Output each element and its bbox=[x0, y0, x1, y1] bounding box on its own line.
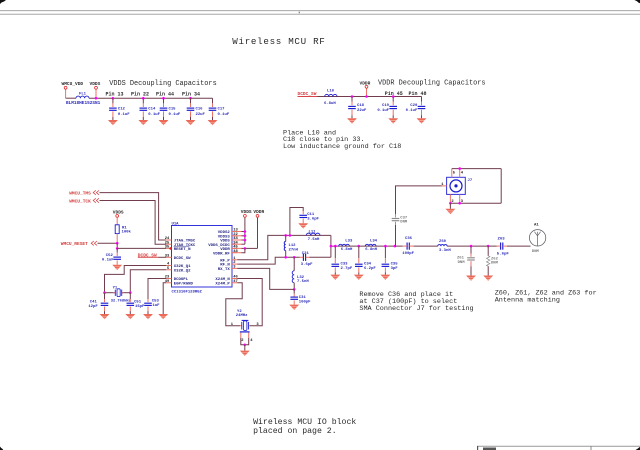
svg-text:SMA Connector J7 for testing: SMA Connector J7 for testing bbox=[359, 305, 473, 313]
svg-text:Low inductance ground for C18: Low inductance ground for C18 bbox=[283, 143, 401, 151]
svg-text:C53: C53 bbox=[152, 299, 160, 303]
svg-text:C12: C12 bbox=[118, 107, 126, 111]
svg-text:6.2pF: 6.2pF bbox=[364, 267, 376, 271]
svg-text:X24M_P: X24M_P bbox=[215, 282, 230, 286]
svg-text:C21: C21 bbox=[302, 252, 310, 256]
svg-text:0.1uF: 0.1uF bbox=[377, 109, 389, 113]
svg-text:C14: C14 bbox=[148, 107, 156, 111]
svg-text:CC1310F128RGZ: CC1310F128RGZ bbox=[172, 291, 203, 295]
svg-text:0.1uF: 0.1uF bbox=[406, 109, 418, 113]
svg-text:DNM: DNM bbox=[491, 262, 499, 266]
svg-text:C11: C11 bbox=[307, 213, 315, 217]
svg-text:C16: C16 bbox=[196, 107, 204, 111]
svg-text:Pin 13: Pin 13 bbox=[106, 91, 124, 97]
svg-text:A1: A1 bbox=[534, 223, 539, 227]
svg-text:Antenna matching: Antenna matching bbox=[495, 297, 560, 305]
svg-text:U1A: U1A bbox=[172, 222, 180, 226]
svg-text:0.1uF: 0.1uF bbox=[218, 113, 230, 117]
svg-text:VDDS: VDDS bbox=[241, 209, 252, 215]
svg-text:VDDR Decoupling Capacitors: VDDR Decoupling Capacitors bbox=[378, 79, 486, 87]
svg-text:Wireless MCU RF: Wireless MCU RF bbox=[232, 36, 325, 47]
svg-text:J7: J7 bbox=[468, 179, 473, 183]
svg-text:BLM18HE152SN1: BLM18HE152SN1 bbox=[66, 101, 101, 106]
svg-text:RX_TX: RX_TX bbox=[218, 268, 231, 272]
svg-text:15pF: 15pF bbox=[135, 305, 145, 309]
svg-text:24MHz: 24MHz bbox=[236, 314, 248, 318]
svg-text:35: 35 bbox=[165, 246, 170, 250]
svg-text:3.3nH: 3.3nH bbox=[439, 249, 451, 253]
svg-text:L11: L11 bbox=[309, 230, 317, 234]
svg-text:C51: C51 bbox=[134, 301, 142, 305]
svg-text:L34: L34 bbox=[370, 239, 378, 243]
svg-text:100pF: 100pF bbox=[299, 300, 311, 304]
svg-text:Pin 48: Pin 48 bbox=[409, 91, 427, 97]
svg-text:5.6pF: 5.6pF bbox=[497, 252, 510, 256]
svg-text:7.5nH: 7.5nH bbox=[297, 280, 309, 284]
svg-text:7.5nH: 7.5nH bbox=[308, 238, 320, 242]
svg-text:6.8uH: 6.8uH bbox=[324, 102, 336, 106]
svg-text:WMCU_RESET: WMCU_RESET bbox=[61, 241, 88, 247]
svg-text:WMCU_TCK: WMCU_TCK bbox=[69, 198, 91, 204]
svg-text:6.8nH: 6.8nH bbox=[341, 248, 353, 252]
svg-text:12pF: 12pF bbox=[88, 305, 98, 309]
svg-text:Pin 34: Pin 34 bbox=[182, 91, 200, 97]
svg-text:VDDR: VDDR bbox=[253, 209, 264, 215]
svg-text:C19: C19 bbox=[382, 104, 390, 108]
svg-text:EGP/RGND: EGP/RGND bbox=[174, 281, 194, 286]
svg-text:C18: C18 bbox=[357, 104, 365, 108]
svg-text:L10: L10 bbox=[327, 89, 335, 93]
svg-text:Y1: Y1 bbox=[113, 286, 118, 290]
svg-text:VDDS Decoupling Capacitors: VDDS Decoupling Capacitors bbox=[109, 80, 217, 88]
svg-text:3.6pF: 3.6pF bbox=[301, 263, 313, 267]
svg-text:33: 33 bbox=[165, 254, 170, 258]
svg-text:C20: C20 bbox=[410, 104, 418, 108]
svg-text:Z63: Z63 bbox=[498, 238, 506, 242]
svg-text:100pF: 100pF bbox=[402, 252, 414, 256]
svg-text:3pF: 3pF bbox=[391, 267, 399, 271]
svg-text:RESET_N: RESET_N bbox=[174, 248, 191, 252]
svg-text:22uF: 22uF bbox=[196, 113, 206, 117]
svg-text:DNM: DNM bbox=[400, 221, 408, 225]
svg-text:3.6pF: 3.6pF bbox=[307, 218, 319, 222]
svg-text:VDDR: VDDR bbox=[360, 80, 371, 86]
svg-text:0.1uF: 0.1uF bbox=[118, 113, 130, 117]
svg-text:1uF: 1uF bbox=[153, 304, 161, 308]
svg-text:C41: C41 bbox=[90, 301, 98, 305]
svg-text:C37: C37 bbox=[400, 216, 408, 220]
svg-text:C15: C15 bbox=[169, 107, 177, 111]
svg-text:VDDS: VDDS bbox=[90, 81, 101, 87]
svg-text:Pin 22: Pin 22 bbox=[131, 91, 149, 97]
svg-text:0.1uF: 0.1uF bbox=[102, 258, 114, 262]
svg-text:C36: C36 bbox=[405, 237, 413, 241]
svg-text:FL1: FL1 bbox=[79, 92, 87, 96]
svg-text:WMCU_TMS: WMCU_TMS bbox=[69, 191, 91, 197]
svg-text:L33: L33 bbox=[345, 239, 353, 243]
svg-text:100k: 100k bbox=[122, 230, 132, 235]
svg-text:VDDS: VDDS bbox=[113, 209, 124, 215]
svg-text:DNM: DNM bbox=[532, 250, 540, 254]
svg-text:placed on page 2.: placed on page 2. bbox=[253, 426, 337, 436]
svg-text:Z60: Z60 bbox=[439, 240, 447, 244]
svg-text:2.7pF: 2.7pF bbox=[341, 267, 353, 271]
svg-text:VDDR_RF: VDDR_RF bbox=[213, 252, 230, 256]
svg-text:X32K_Q2: X32K_Q2 bbox=[174, 269, 191, 273]
svg-text:DNM: DNM bbox=[458, 261, 466, 265]
svg-text:22uF: 22uF bbox=[357, 109, 367, 113]
svg-text:Wireless MCU IO block: Wireless MCU IO block bbox=[253, 417, 356, 427]
svg-text:Pin 44: Pin 44 bbox=[156, 91, 174, 97]
svg-text:27nH: 27nH bbox=[289, 248, 299, 252]
svg-text:DCDC_SW: DCDC_SW bbox=[174, 257, 191, 261]
svg-text:6.8nH: 6.8nH bbox=[365, 248, 377, 252]
svg-text:C17: C17 bbox=[218, 107, 226, 111]
svg-text:0.1uF: 0.1uF bbox=[148, 113, 160, 117]
svg-text:0.1uF: 0.1uF bbox=[169, 113, 181, 117]
